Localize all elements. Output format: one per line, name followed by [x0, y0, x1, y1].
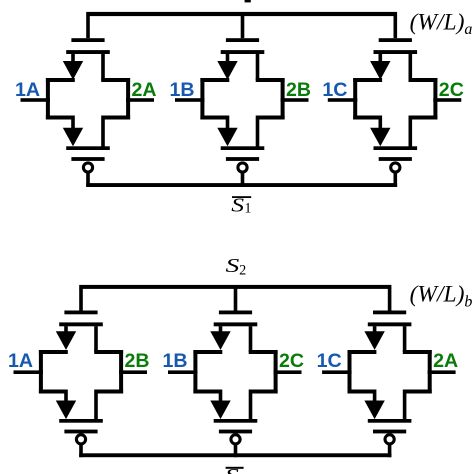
label S1-bar text — [231, 194, 251, 216]
label 1C (input 1C of switch C1 (row1 right)) — [322, 79, 347, 101]
wire left drain stub of switch A1 (row1 left) PMOS — [71, 119, 75, 129]
node bottom-left edge of switch C1 (row1 right) — [353, 116, 382, 120]
label 1B (input 1B of switch B2 (row2 middle)) — [163, 350, 188, 372]
node bottom-right edge of switch B1 (row1 middle) — [256, 116, 285, 120]
gate bar of switch A1 (row1 left) NMOS — [71, 38, 104, 42]
svg-text:1C: 1C — [317, 350, 342, 372]
wire right vertical of switch C1 (row1 right) — [433, 78, 437, 120]
label 1B (input 1B of switch B1 (row1 middle)) — [170, 79, 195, 101]
channel bar of switch A1 (row1 left) NMOS — [66, 50, 110, 54]
bubble on switch A2 (row2 left) PMOS gate — [76, 435, 85, 444]
arrow on switch C2 (row2 right) PMOS left leg — [364, 401, 384, 420]
node bottom-left edge of switch C2 (row2 right) — [348, 390, 377, 394]
svg-text:2C: 2C — [439, 79, 464, 101]
wire right terminal 2A of switch C2 (row2 right) — [428, 370, 456, 374]
wire gate stub of switch A1 (row1 left) NMOS — [86, 16, 90, 39]
label 2C (output 2C of switch B2 (row2 middle)) — [279, 350, 304, 372]
wire right vertical of switch A1 (row1 left) — [126, 78, 130, 120]
wire gate stub of switch C1 (row1 right) NMOS — [394, 16, 398, 39]
node bottom-right edge of switch C2 (row2 right) — [403, 390, 432, 394]
wire right vertical of switch A2 (row2 left) — [119, 350, 123, 394]
svg-text:2B: 2B — [125, 350, 150, 372]
label 1C (input 1C of switch C2 (row2 right)) — [317, 350, 342, 372]
gate bar of switch A2 (row2 left) PMOS — [64, 430, 97, 434]
wire right vertical of switch B1 (row1 middle) — [281, 78, 285, 120]
svg-text:1B: 1B — [163, 350, 188, 372]
arrow on switch B2 (row2 middle) PMOS left leg — [210, 401, 230, 420]
gate bar of switch C1 (row1 right) PMOS — [379, 157, 412, 161]
label S2 — [226, 255, 247, 278]
channel bar of switch B1 (row1 middle) PMOS — [221, 146, 265, 150]
arrow on switch B1 (row1 middle) NMOS left leg — [217, 61, 237, 80]
wire right source drop of switch B2 (row2 middle) PMOS — [249, 393, 253, 421]
node top-left edge of switch B2 (row2 middle) — [193, 350, 222, 354]
wire right source drop of switch A1 (row1 left) NMOS — [101, 54, 105, 80]
arrow on switch A1 (row1 left) NMOS left leg — [63, 61, 83, 80]
arrow on switch A2 (row2 left) NMOS left leg — [56, 331, 76, 350]
net S1-bar bottom rail (row 1) — [86, 183, 397, 187]
wire left drain stub of switch C1 (row1 right) PMOS — [379, 119, 383, 129]
wire left vertical of switch A1 (row1 left) — [46, 78, 50, 120]
label 1A (input 1A of switch A1 (row1 left)) — [15, 79, 40, 101]
wire left terminal 1A of switch A1 (row1 left) — [21, 98, 51, 102]
label S2-bar overline — [226, 467, 244, 469]
node top-right edge of switch A1 (row1 left) — [101, 78, 130, 82]
node top-left edge of switch A2 (row2 left) — [39, 350, 68, 354]
wire left drain stub of switch B2 (row2 middle) PMOS — [219, 393, 223, 402]
wire right terminal 2B of switch B1 (row1 middle) — [281, 98, 309, 102]
arrow on switch B1 (row1 middle) PMOS left leg — [217, 128, 237, 147]
gate bar of switch C1 (row1 right) NMOS — [379, 38, 412, 42]
arrow on switch C1 (row1 right) NMOS left leg — [370, 61, 390, 80]
wire left drain stub of switch B1 (row1 middle) PMOS — [226, 119, 230, 129]
gate bar of switch B2 (row2 middle) PMOS — [219, 430, 252, 434]
wire left drain stub of switch C2 (row2 right) PMOS — [373, 393, 377, 402]
bubble on switch C2 (row2 right) PMOS gate — [385, 435, 394, 444]
channel bar of switch C2 (row2 right) NMOS — [368, 322, 412, 326]
svg-text:1: 1 — [244, 200, 251, 216]
svg-text:1C: 1C — [322, 79, 347, 101]
wire left vertical of switch C1 (row1 right) — [353, 78, 357, 120]
svg-text:1A: 1A — [15, 79, 40, 101]
wire left drain stub of switch A1 (row1 left) NMOS — [71, 54, 75, 63]
gate bar of switch A2 (row2 left) NMOS — [64, 311, 97, 315]
wire left drain stub of switch C2 (row2 right) NMOS — [373, 326, 377, 333]
wire left drain stub of switch A2 (row2 left) NMOS — [64, 326, 68, 333]
label 2B (output 2B of switch B1 (row1 middle)) — [286, 79, 311, 101]
svg-text:2C: 2C — [279, 350, 304, 372]
wire left drain stub of switch C1 (row1 right) NMOS — [379, 54, 383, 63]
wire right source drop of switch A1 (row1 left) PMOS — [101, 119, 105, 148]
net S1 top rail (row 1) — [86, 12, 397, 16]
wire right terminal 2A of switch A1 (row1 left) — [126, 98, 154, 102]
wire bubble stub of switch B1 (row1 middle) PMOS — [241, 172, 245, 187]
wire left terminal 1B of switch B2 (row2 middle) — [168, 370, 198, 374]
gate bar of switch C2 (row2 right) NMOS — [373, 311, 406, 315]
node bottom-left edge of switch B1 (row1 middle) — [200, 116, 229, 120]
net S2-bar bottom rail (row 2) — [79, 453, 391, 457]
wire right source drop of switch C1 (row1 right) PMOS — [409, 119, 413, 148]
label (W/L)b — [410, 282, 473, 311]
wire left vertical of switch B2 (row2 middle) — [193, 350, 197, 394]
node bottom-right edge of switch A2 (row2 left) — [94, 390, 123, 394]
node top-left edge of switch A1 (row1 left) — [46, 78, 75, 82]
gate bar of switch C2 (row2 right) PMOS — [373, 430, 406, 434]
channel bar of switch C1 (row1 right) NMOS — [374, 50, 418, 54]
arrow on switch A1 (row1 left) PMOS left leg — [63, 128, 83, 147]
wire right vertical of switch B2 (row2 middle) — [274, 350, 278, 394]
label 2B (output 2B of switch A2 (row2 left)) — [125, 350, 150, 372]
wire right vertical of switch C2 (row2 right) — [428, 350, 432, 394]
wire right source drop of switch B2 (row2 middle) NMOS — [249, 326, 253, 352]
bubble on switch C1 (row1 right) PMOS gate — [391, 163, 400, 172]
svg-text:2A: 2A — [433, 350, 458, 372]
bubble on switch B2 (row2 middle) PMOS gate — [231, 435, 240, 444]
label 2C (output 2C of switch C1 (row1 right)) — [439, 79, 464, 101]
wire right terminal 2B of switch A2 (row2 left) — [119, 370, 147, 374]
svg-text:1A: 1A — [8, 350, 33, 372]
wire left drain stub of switch B2 (row2 middle) NMOS — [219, 326, 223, 333]
node bottom-left edge of switch A2 (row2 left) — [39, 390, 68, 394]
wire left vertical of switch A2 (row2 left) — [39, 350, 43, 394]
svg-text:1B: 1B — [170, 79, 195, 101]
bubble on switch A1 (row1 left) PMOS gate — [83, 163, 92, 172]
channel bar of switch A2 (row2 left) PMOS — [59, 419, 103, 423]
wire left terminal 1A of switch A2 (row2 left) — [14, 370, 44, 374]
gate bar of switch A1 (row1 left) PMOS — [71, 157, 104, 161]
bubble on switch B1 (row1 middle) PMOS gate — [238, 163, 247, 172]
wire right source drop of switch A2 (row2 left) NMOS — [94, 326, 98, 352]
channel bar of switch C2 (row2 right) PMOS — [368, 419, 412, 423]
wire right source drop of switch C1 (row1 right) NMOS — [409, 54, 413, 80]
wire left drain stub of switch B1 (row1 middle) NMOS — [226, 54, 230, 63]
wire bubble stub of switch B2 (row2 middle) PMOS — [234, 444, 238, 457]
label S1-bar overline — [232, 196, 251, 198]
svg-text:2A: 2A — [132, 79, 157, 101]
arrow on switch A2 (row2 left) PMOS left leg — [56, 401, 76, 420]
wire gate stub of switch B2 (row2 middle) NMOS — [234, 288, 238, 310]
wire bubble stub of switch A1 (row1 left) PMOS — [86, 172, 90, 187]
wire bubble stub of switch C2 (row2 right) PMOS — [388, 444, 392, 457]
svg-text:S: S — [225, 465, 239, 474]
node top-right edge of switch B1 (row1 middle) — [256, 78, 285, 82]
arrow on switch B2 (row2 middle) NMOS left leg — [210, 331, 230, 350]
node bottom-right edge of switch C1 (row1 right) — [409, 116, 438, 120]
channel bar of switch A2 (row2 left) NMOS — [59, 322, 103, 326]
node top-left edge of switch C2 (row2 right) — [348, 350, 377, 354]
gate bar of switch B1 (row1 middle) NMOS — [226, 38, 259, 42]
wire right source drop of switch B1 (row1 middle) NMOS — [256, 54, 260, 80]
svg-text:2B: 2B — [286, 79, 311, 101]
node bottom-right edge of switch B2 (row2 middle) — [249, 390, 278, 394]
gate bar of switch B1 (row1 middle) PMOS — [226, 157, 259, 161]
node top-right edge of switch A2 (row2 left) — [94, 350, 123, 354]
wire left terminal 1C of switch C1 (row1 right) — [328, 98, 358, 102]
svg-text:S: S — [226, 255, 240, 277]
node bottom-left edge of switch B2 (row2 middle) — [193, 390, 222, 394]
svg-text:S: S — [231, 194, 244, 216]
wire bubble stub of switch C1 (row1 right) PMOS — [394, 172, 398, 187]
wire right terminal 2C of switch C1 (row1 right) — [433, 98, 461, 102]
label 2A (output 2A of switch C2 (row2 right)) — [433, 350, 458, 372]
wire gate stub of switch A2 (row2 left) NMOS — [79, 288, 83, 310]
svg-text:(W/L)a: (W/L)a — [410, 9, 473, 38]
node bottom-right edge of switch A1 (row1 left) — [101, 116, 130, 120]
svg-text:(W/L)b: (W/L)b — [410, 282, 473, 311]
label 1A (input 1A of switch A2 (row2 left)) — [8, 350, 33, 372]
gate bar of switch B2 (row2 middle) NMOS — [219, 311, 252, 315]
wire right source drop of switch C2 (row2 right) NMOS — [403, 326, 407, 352]
node bottom-left edge of switch A1 (row1 left) — [46, 116, 75, 120]
wire right source drop of switch C2 (row2 right) PMOS — [403, 393, 407, 421]
wire gate stub of switch C2 (row2 right) NMOS — [388, 288, 392, 310]
node top-left edge of switch B1 (row1 middle) — [200, 78, 229, 82]
channel bar of switch B2 (row2 middle) NMOS — [214, 322, 258, 326]
node top-right edge of switch B2 (row2 middle) — [249, 350, 278, 354]
arrow on switch C2 (row2 right) NMOS left leg — [364, 331, 384, 350]
wire bubble stub of switch A2 (row2 left) PMOS — [79, 444, 83, 457]
channel bar of switch A1 (row1 left) PMOS — [66, 146, 110, 150]
label S1 (cropped at top edge, subscript 1 tip) — [245, 0, 251, 2]
svg-text:2: 2 — [239, 263, 246, 279]
node top-left edge of switch C1 (row1 right) — [353, 78, 382, 82]
label S2-bar text (cropped at bottom edge) — [225, 465, 239, 474]
node top-right edge of switch C1 (row1 right) — [409, 78, 438, 82]
channel bar of switch B2 (row2 middle) PMOS — [214, 419, 258, 423]
wire left terminal 1C of switch C2 (row2 right) — [322, 370, 352, 374]
node top-right edge of switch C2 (row2 right) — [403, 350, 432, 354]
wire left vertical of switch C2 (row2 right) — [348, 350, 352, 394]
channel bar of switch C1 (row1 right) PMOS — [374, 146, 418, 150]
wire left terminal 1B of switch B1 (row1 middle) — [175, 98, 205, 102]
label (W/L)a — [410, 9, 473, 38]
wire right source drop of switch B1 (row1 middle) PMOS — [256, 119, 260, 148]
wire right terminal 2C of switch B2 (row2 middle) — [274, 370, 302, 374]
channel bar of switch B1 (row1 middle) NMOS — [221, 50, 265, 54]
arrow on switch C1 (row1 right) PMOS left leg — [370, 128, 390, 147]
wire left drain stub of switch A2 (row2 left) PMOS — [64, 393, 68, 402]
net S2 top rail (row 2) — [79, 285, 391, 289]
wire left vertical of switch B1 (row1 middle) — [200, 78, 204, 120]
wire right source drop of switch A2 (row2 left) PMOS — [94, 393, 98, 421]
label 2A (output 2A of switch A1 (row1 left)) — [132, 79, 157, 101]
wire gate stub of switch B1 (row1 middle) NMOS — [241, 16, 245, 39]
